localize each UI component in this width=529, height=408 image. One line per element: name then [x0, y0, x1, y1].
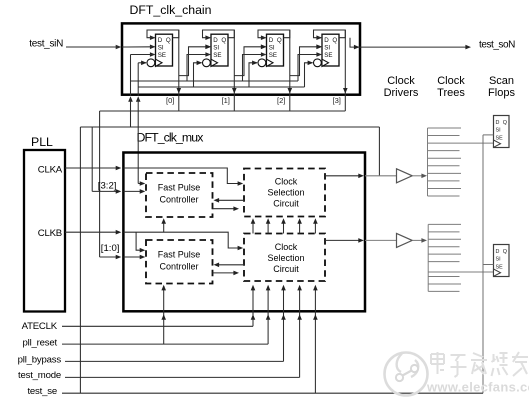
wire SE riser to FF4	[298, 55, 321, 82]
wire CSC2 output to driver 2	[325, 239, 362, 241]
svg-text:CLKA: CLKA	[38, 164, 63, 175]
wire FF4 Q to test_soN	[350, 38, 469, 47]
clock driver 1 buffer	[397, 169, 413, 183]
wire bus line B (test_se / scan-enable net)	[80, 126, 379, 128]
svg-text:D: D	[324, 37, 329, 44]
svg-text:ATECLK: ATECLK	[22, 321, 58, 332]
svg-text:test_soN: test_soN	[479, 40, 515, 51]
wire test_siN to FF1 SI	[122, 46, 155, 48]
svg-text:pll_reset: pll_reset	[23, 338, 58, 349]
wire control riser 1 into CSC2	[252, 286, 254, 326]
flip-flop FF4 (scan cell)	[322, 34, 339, 66]
wire FF3 Q output drop [2]	[289, 30, 291, 111]
svg-text:D: D	[213, 37, 218, 44]
svg-text:SI: SI	[496, 128, 501, 134]
wire pll_reset riser to FPC2	[163, 286, 165, 344]
wire FF4 Q-to-D feedback loop	[314, 30, 346, 38]
svg-text:SE: SE	[496, 136, 504, 142]
wire control riser 2 into CSC2	[267, 286, 269, 344]
FF1 SI input arrow	[150, 45, 156, 50]
CSC2 text	[267, 242, 304, 274]
svg-text:Clock: Clock	[275, 242, 298, 252]
FF4 inverted-clock bubble	[314, 59, 322, 67]
svg-text:Drivers: Drivers	[384, 87, 419, 99]
svg-text:SE: SE	[213, 52, 221, 59]
wire pll_reset	[62, 343, 268, 345]
wire FF1 Q output drop [0]	[178, 30, 180, 111]
wire CLKA branch to FPC1 (via chain column)	[137, 168, 139, 184]
wire [1:0] into FPC2	[100, 256, 119, 258]
wire vertical [3:2] feed	[91, 127, 93, 191]
FF2 inverted-clock bubble	[203, 59, 211, 67]
svg-text:Q: Q	[332, 37, 337, 44]
svg-text:Trees: Trees	[437, 87, 465, 99]
wire FF3 Q to FF4 SI link	[290, 47, 321, 76]
wire vertical [1:0] feed	[99, 111, 101, 257]
wire test_siN into chain	[66, 46, 119, 48]
label Clock Trees	[437, 75, 465, 99]
clock tree 2	[427, 224, 429, 291]
svg-text:Q: Q	[503, 249, 507, 255]
svg-text:SE: SE	[269, 52, 277, 59]
FF3 inverted-clock bubble	[258, 59, 266, 67]
svg-text:D: D	[496, 249, 500, 255]
wire clock riser to FF3	[249, 63, 257, 87]
wire CSC2 to FPC2 (feedback)	[216, 264, 245, 266]
wire vertical test_se (x=80)	[79, 127, 81, 393]
wire FF2 Q output drop [1]	[233, 30, 235, 111]
wire to scan flop 1 SE	[483, 134, 494, 136]
wire CLKB to mux and CSC2	[65, 231, 119, 233]
svg-text:SI: SI	[213, 44, 219, 51]
wire clock riser to FF2	[194, 63, 202, 87]
FF1 inverted-clock bubble	[147, 59, 155, 67]
svg-text:SI: SI	[158, 44, 164, 51]
wire FF2 Q-to-D feedback loop	[203, 30, 235, 38]
scan flop 2	[494, 245, 510, 277]
wire bus line A (chain outputs collector)	[100, 110, 346, 112]
arrow CSC2-to-CSC1 control stub 1	[252, 221, 254, 234]
svg-text:Fast Pulse: Fast Pulse	[158, 183, 201, 193]
svg-text:CLKB: CLKB	[38, 228, 62, 239]
svg-text:test_se: test_se	[27, 386, 57, 397]
svg-text:Controller: Controller	[159, 195, 198, 205]
svg-text:DFT_clk_mux: DFT_clk_mux	[137, 131, 205, 145]
svg-text:PLL: PLL	[31, 135, 53, 149]
wire FPC2 to CSC2	[213, 272, 237, 274]
wire driver 1 to clock tree 1	[412, 175, 424, 177]
svg-text:[1:0]: [1:0]	[101, 243, 120, 254]
svg-text:Q: Q	[221, 37, 226, 44]
svg-text:SE: SE	[324, 52, 332, 59]
wire SE riser to FF3	[243, 55, 266, 82]
FF2 SI input arrow	[205, 45, 211, 50]
block FPC1 Fast Pulse Controller	[146, 173, 213, 217]
DFT_clk_mux box	[123, 153, 365, 312]
svg-text:Flops: Flops	[488, 87, 515, 99]
svg-text:SI: SI	[324, 44, 330, 51]
arrow CSC2-to-CSC1 control stub 3	[283, 221, 285, 234]
wire test_se riser to scan flops	[482, 135, 484, 393]
CSC1 text	[267, 176, 304, 208]
svg-text:Q: Q	[166, 37, 171, 44]
wire chain SE bus	[131, 80, 299, 82]
clock driver 2 buffer	[397, 233, 413, 247]
svg-text:Selection: Selection	[267, 253, 304, 263]
arrow chain clock entry (bottom)	[136, 96, 141, 102]
FF2 D input arrow	[205, 35, 211, 40]
FPC2 text	[158, 250, 201, 272]
arrow CSC2-to-CSC1 control stub 4	[299, 221, 301, 234]
svg-text:Clock: Clock	[387, 75, 415, 87]
wire CLKA to mux and CSC1	[65, 167, 119, 169]
FF2 SE input arrow	[205, 52, 211, 57]
wire CLKB branch to FPC2	[136, 232, 143, 250]
svg-text:test_mode: test_mode	[18, 370, 61, 381]
wire FF1 Q to FF2 SI link	[179, 47, 210, 76]
wire line B to clock driver 1	[378, 127, 380, 176]
svg-text:D: D	[158, 37, 163, 44]
FF3 SI input arrow	[261, 45, 267, 50]
flip-flop FF3 (scan cell)	[267, 34, 284, 66]
wire chain clock bus	[138, 86, 304, 88]
svg-text:Circuit: Circuit	[273, 264, 299, 274]
svg-text:www.elecfans.com: www.elecfans.com	[426, 380, 529, 395]
arrow chain SE entry (bottom)	[128, 96, 133, 102]
svg-text:Q: Q	[277, 37, 282, 44]
svg-text:[3]: [3]	[332, 96, 340, 105]
PLL box	[24, 150, 65, 312]
arrow CSC2-to-CSC1 control stub 2	[267, 221, 269, 234]
FF1 SE input arrow	[150, 52, 156, 57]
svg-text:Scan: Scan	[489, 75, 514, 87]
wire [3:2] into FPC1	[92, 190, 119, 192]
wire driver 2 to clock tree 2	[412, 239, 424, 241]
flip-flop FF2 (scan cell)	[211, 34, 228, 66]
svg-text:[0]: [0]	[166, 96, 174, 105]
wire FF2 Q to FF3 SI link	[234, 47, 265, 76]
wire to scan flop 2 SE	[483, 264, 494, 266]
svg-text:Fast Pulse: Fast Pulse	[158, 250, 201, 260]
svg-text:SE: SE	[158, 52, 166, 59]
FF4 SI input arrow	[316, 45, 322, 50]
wire SE riser to FF2	[187, 55, 210, 82]
wire pll_bypass	[65, 360, 284, 362]
wire chain clock entry riser	[137, 63, 139, 96]
label Clock Drivers	[384, 75, 419, 99]
svg-text:DFT_clk_chain: DFT_clk_chain	[130, 3, 212, 17]
DFT_clk_chain box	[122, 23, 360, 94]
wire FF3 Q-to-D feedback loop	[258, 30, 290, 38]
svg-text:SE: SE	[496, 265, 504, 271]
label Scan Flops	[488, 75, 515, 99]
arrow CSC2-to-CSC1 control stub 5	[314, 221, 316, 234]
FF3 SE input arrow	[261, 52, 267, 57]
svg-text:SI: SI	[496, 257, 501, 263]
FF1 D input arrow	[150, 35, 156, 40]
wire FF1 Q-to-D feedback loop	[147, 30, 179, 38]
FF3 D input arrow	[261, 35, 267, 40]
FPC1 text	[158, 183, 201, 205]
clock tree 1	[427, 128, 429, 196]
wire control riser 3 into CSC2	[283, 286, 285, 361]
svg-text:Controller: Controller	[159, 262, 198, 272]
svg-text:Clock: Clock	[437, 75, 465, 87]
wire chain SE entry riser	[130, 55, 132, 97]
svg-text:test_siN: test_siN	[29, 38, 63, 49]
FF4 D input arrow	[316, 35, 322, 40]
svg-text:SI: SI	[269, 44, 275, 51]
svg-text:Circuit: Circuit	[273, 198, 299, 208]
watermark elecfans logo+text	[385, 352, 529, 396]
wire control riser 4 into CSC2	[299, 286, 301, 377]
svg-text:Q: Q	[503, 120, 507, 126]
block FPC2 Fast Pulse Controller	[146, 240, 213, 284]
svg-text:pll_bypass: pll_bypass	[18, 355, 62, 366]
svg-text:Clock: Clock	[275, 176, 298, 186]
svg-text:Selection: Selection	[267, 187, 304, 197]
wire clock riser to FF4	[305, 63, 313, 87]
wire test_mode	[65, 376, 300, 378]
svg-text:[2]: [2]	[277, 96, 285, 105]
svg-text:[1]: [1]	[221, 96, 229, 105]
svg-text:D: D	[496, 120, 500, 126]
wire CLKB to FPC1 bottom	[163, 221, 165, 233]
wire CSC1 to FPC1 (feedback)	[216, 199, 245, 201]
wire test_se	[62, 392, 483, 394]
wire FF4 Q output drop [3]	[344, 30, 346, 111]
wire FPC1 to CSC1	[213, 208, 237, 210]
scan flop 1	[494, 116, 510, 148]
FF4 SE input arrow	[316, 52, 322, 57]
block CSC2 Clock Selection Circuit	[244, 234, 325, 282]
wire CSC1 output to driver 1	[325, 175, 362, 177]
svg-text:D: D	[269, 37, 274, 44]
wire control riser 5 into CSC2	[314, 286, 316, 393]
flip-flop FF1 (scan cell)	[156, 34, 173, 66]
svg-text:[3:2]: [3:2]	[98, 181, 117, 192]
block CSC1 Clock Selection Circuit	[244, 169, 325, 217]
wire ATECLK	[62, 325, 253, 327]
